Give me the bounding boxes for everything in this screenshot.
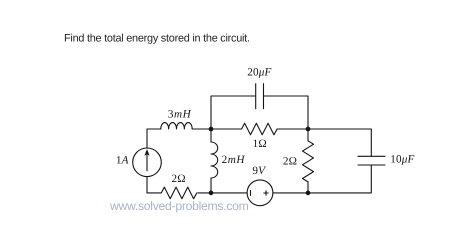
wire 20uF loop left [211, 96, 256, 129]
wire 9V to node D [273, 192, 308, 194]
svg-text:20μF: 20μF [247, 67, 271, 79]
capacitor C2 10uF plates [358, 156, 385, 165]
svg-text:2Ω: 2Ω [283, 156, 297, 168]
node B junction dot [306, 127, 311, 132]
current source I1 circle [133, 148, 162, 177]
svg-text:Find the total energy stored i: Find the total energy stored in the circ… [64, 33, 250, 45]
node C junction dot [209, 191, 214, 196]
wire resistor R2 to node C [198, 192, 247, 194]
wire bottom-left [147, 192, 161, 194]
inductor L1 3mH [161, 123, 192, 129]
current source I1 arrow [145, 150, 149, 172]
voltage source V1 circle [247, 180, 273, 206]
svg-text:2Ω: 2Ω [172, 173, 186, 185]
wire resistor R1 to node B [278, 128, 308, 130]
wire top-left horizontal [147, 128, 161, 130]
wire inductor to node A [192, 128, 211, 130]
wire 20uF loop right [264, 96, 309, 129]
capacitor C1 20uF plates [256, 84, 264, 109]
node A junction dot [209, 127, 214, 132]
svg-text:3mH: 3mH [168, 109, 192, 121]
voltage source V1 polarity marks [251, 190, 269, 196]
node D junction dot [306, 191, 311, 196]
wire left branch top [146, 129, 148, 148]
wire left branch bottom [146, 177, 148, 193]
resistor R2 2ohm bottom [161, 187, 197, 199]
svg-text:1Ω: 1Ω [253, 138, 267, 150]
svg-text:1A: 1A [116, 155, 129, 167]
svg-text:9V: 9V [252, 165, 266, 177]
inductor L2 2mH [211, 129, 218, 193]
svg-text:10μF: 10μF [390, 154, 414, 166]
wire node A to resistor R1 [211, 128, 242, 130]
resistor R3 2ohm right [303, 129, 314, 193]
svg-text:www.solved-problems.com: www.solved-problems.com [109, 199, 249, 213]
wire right branch bottom [308, 165, 371, 193]
wire node B to right branch [308, 129, 371, 156]
resistor R1 1ohm [242, 123, 278, 135]
svg-text:2mH: 2mH [222, 154, 246, 166]
